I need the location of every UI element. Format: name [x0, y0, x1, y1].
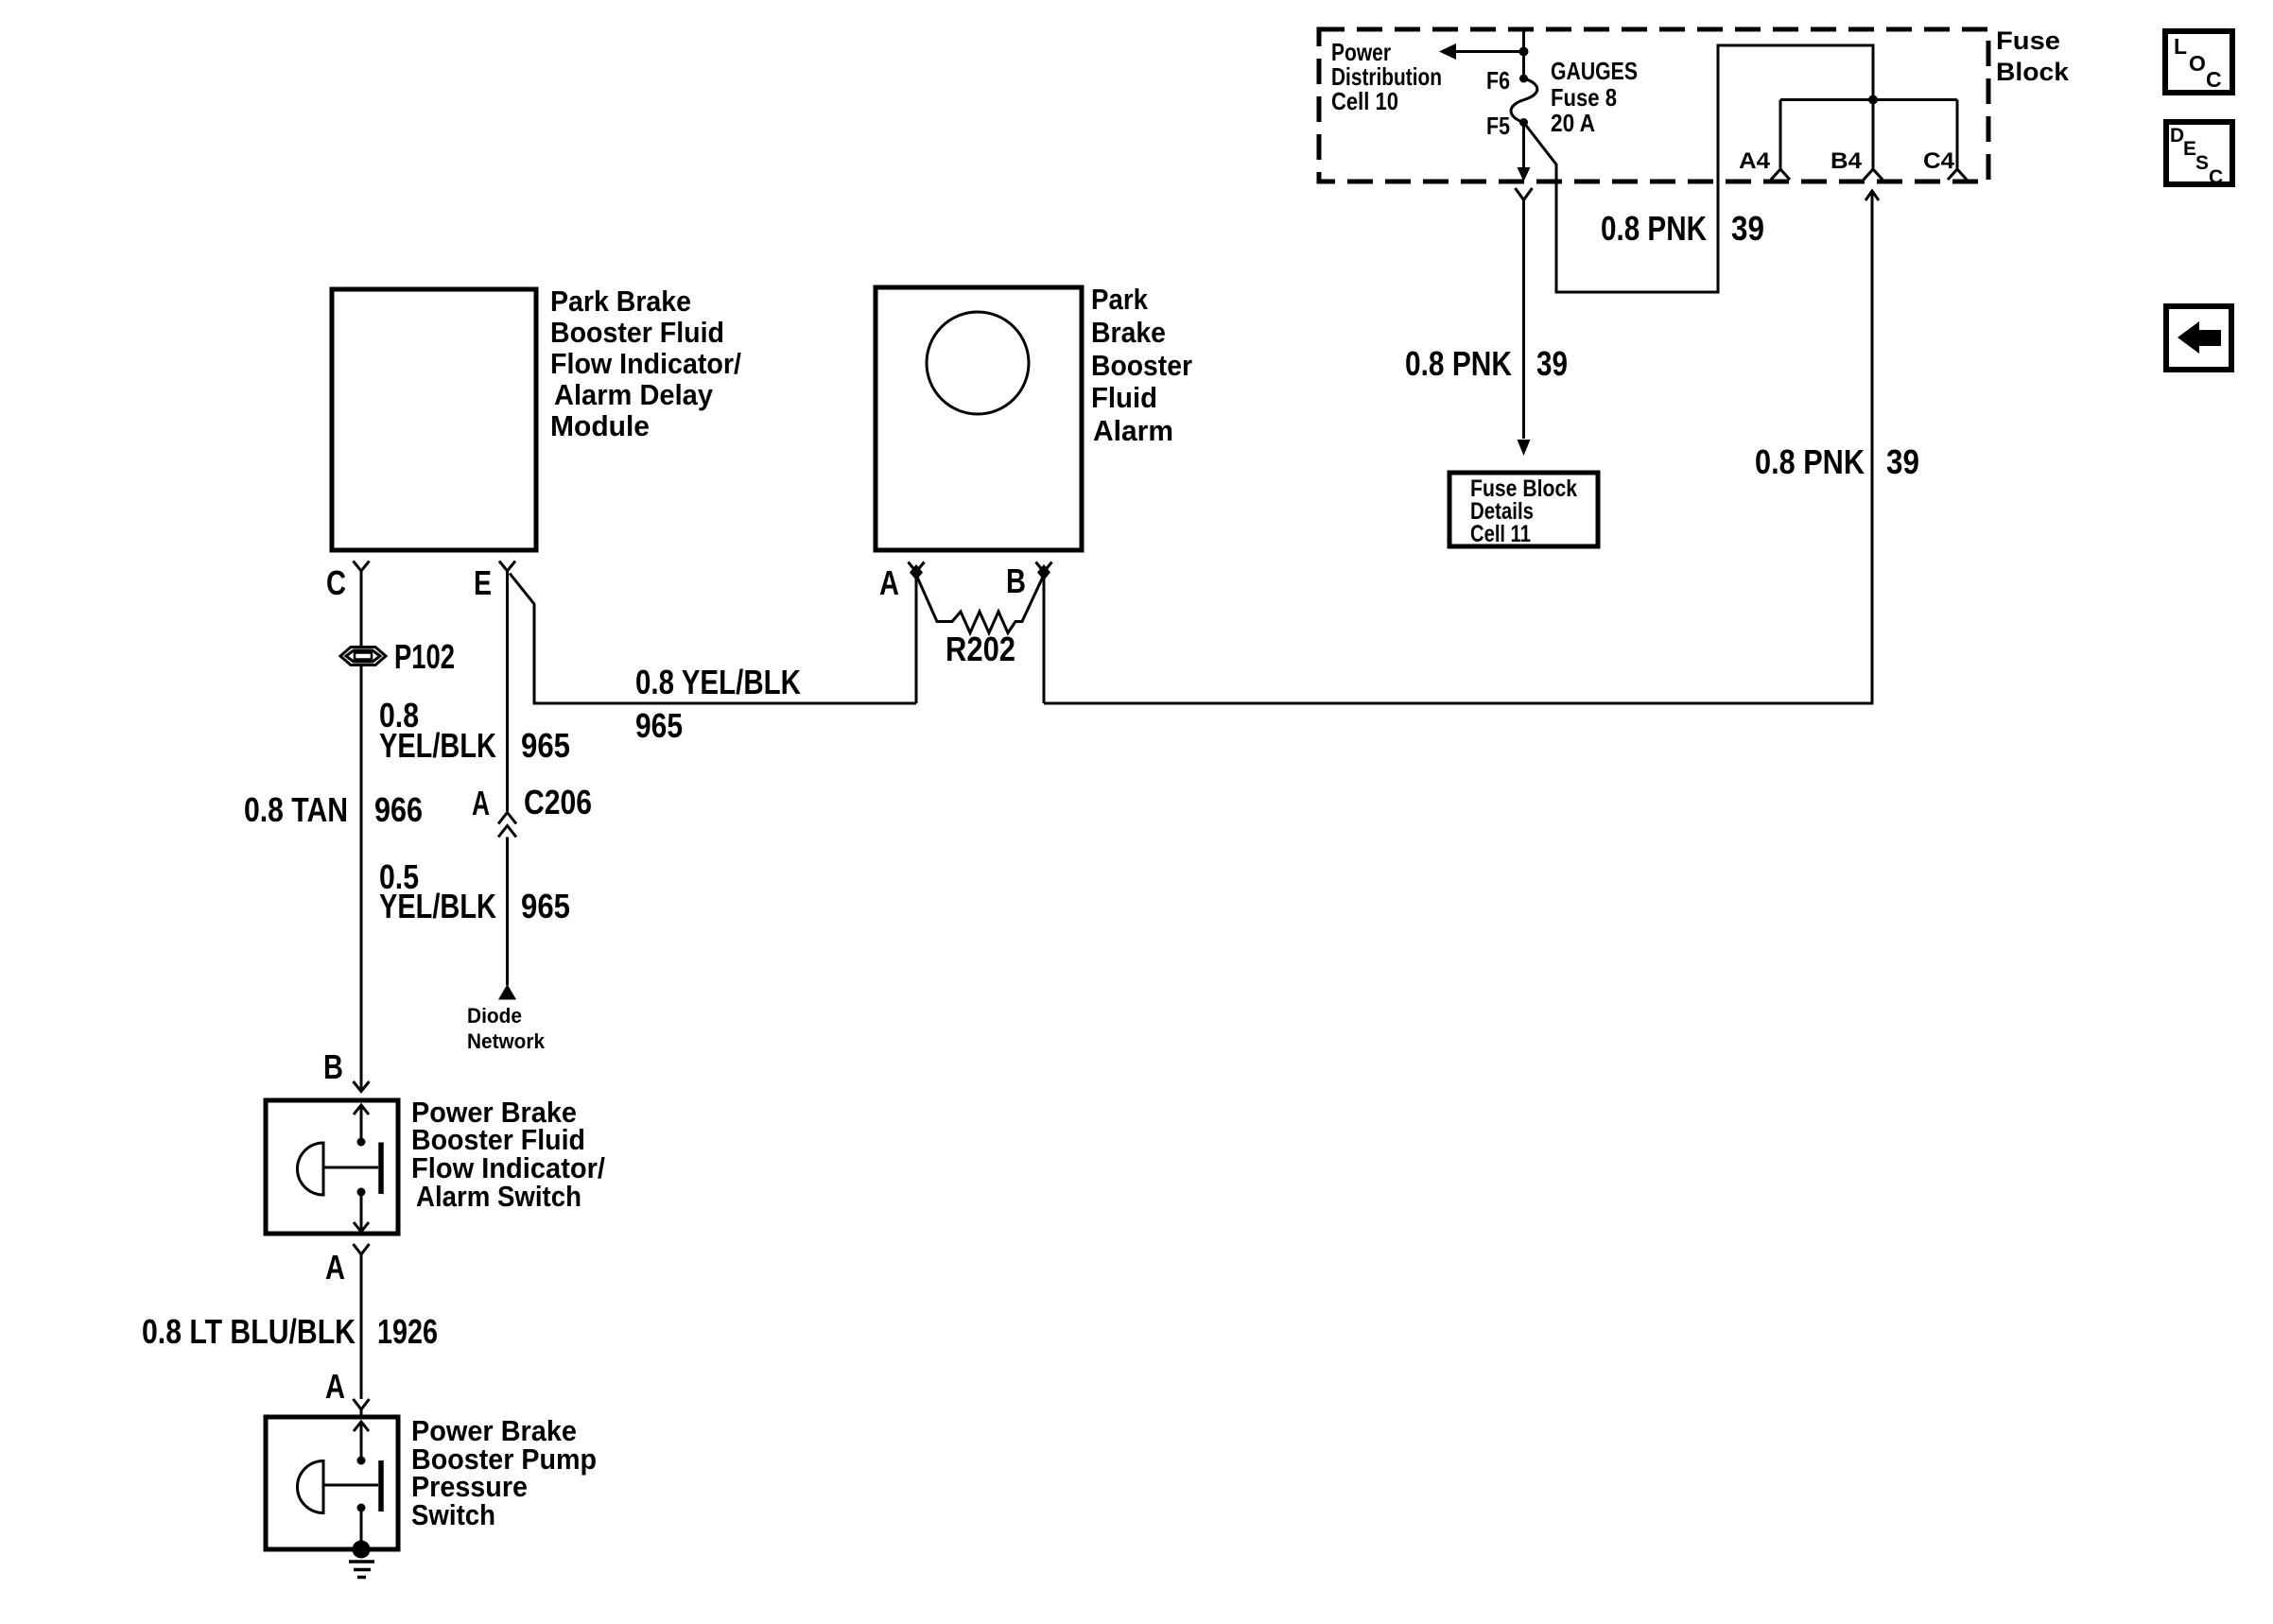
svg-text:S: S: [2195, 152, 2209, 174]
svg-text:Booster: Booster: [1091, 349, 1192, 382]
svg-text:0.8 YEL/BLK: 0.8 YEL/BLK: [635, 663, 801, 701]
pin A of alarm: [909, 562, 925, 573]
svg-text:L: L: [2174, 34, 2187, 59]
svg-text:966: 966: [374, 790, 423, 829]
svg-text:Fluid: Fluid: [1091, 381, 1157, 414]
svg-text:Fuse 8: Fuse 8: [1551, 83, 1617, 112]
wire up into B4 with arrow: [1865, 191, 1879, 200]
svg-text:Cell 10: Cell 10: [1331, 87, 1398, 115]
svg-text:E: E: [474, 563, 492, 602]
wire arrow to power distribution (left): [1456, 50, 1524, 53]
splice P102: [340, 648, 386, 665]
connector C206: [498, 813, 516, 824]
svg-text:A: A: [879, 563, 899, 602]
svg-text:A: A: [325, 1367, 345, 1406]
svg-text:1926: 1926: [377, 1312, 438, 1351]
label 0.8 YEL/BLK 965 (vertical wire): [379, 696, 570, 765]
pin C4: [1948, 169, 1967, 180]
svg-text:39: 39: [1886, 442, 1919, 481]
resistor R202: [916, 575, 1044, 633]
svg-text:D: D: [2170, 125, 2184, 147]
svg-text:GAUGES: GAUGES: [1551, 57, 1638, 85]
svg-text:965: 965: [521, 726, 570, 765]
svg-text:0.8 PNK: 0.8 PNK: [1601, 209, 1707, 248]
alarm lamp circle: [927, 312, 1029, 414]
wire pin A down: [915, 572, 918, 703]
fuse F1 GAUGES Fuse 8 20A: [1511, 75, 1537, 128]
svg-text:0.8 PNK: 0.8 PNK: [1405, 344, 1512, 383]
svg-text:P102: P102: [394, 637, 455, 676]
svg-text:Alarm: Alarm: [1093, 414, 1173, 447]
svg-text:Park Brake: Park Brake: [550, 285, 691, 318]
wire pin B down: [1043, 572, 1046, 703]
svg-text:Booster Fluid: Booster Fluid: [550, 316, 724, 349]
wire 0.8 LT BLU/BLK 1926: [360, 1254, 363, 1399]
svg-text:R202: R202: [946, 630, 1015, 668]
svg-text:B: B: [1006, 561, 1026, 600]
wire 0.5 YEL/BLK 965 down to diode network: [506, 838, 509, 986]
pin B of flow switch: [354, 1081, 370, 1092]
ground at S2: [349, 1541, 374, 1578]
pin E of module: [499, 561, 515, 572]
svg-text:A: A: [325, 1248, 345, 1287]
switch S2: Power Brake Booster Pump Pressure Switch: [266, 1417, 398, 1549]
svg-text:C: C: [2209, 166, 2223, 188]
alarm U2: Park Brake Booster Fluid Alarm: [876, 287, 1082, 550]
svg-text:Flow Indicator/: Flow Indicator/: [550, 347, 741, 380]
svg-text:Module: Module: [550, 409, 650, 442]
svg-text:39: 39: [1536, 344, 1568, 383]
label Fuse Block: [1996, 26, 2070, 86]
svg-text:F6: F6: [1486, 66, 1510, 95]
svg-text:Brake: Brake: [1091, 316, 1166, 349]
wire A4-C4 cross: [1780, 98, 1957, 101]
svg-text:E: E: [2183, 138, 2196, 160]
pin A4: [1771, 169, 1790, 180]
fuse block dashed boundary: [1319, 29, 1988, 181]
back arrow box: [2166, 306, 2231, 370]
svg-text:20 A: 20 A: [1551, 109, 1595, 137]
LOC box: [2165, 31, 2232, 93]
label GAUGES Fuse 8 20 A: [1551, 57, 1638, 137]
svg-text:Network: Network: [467, 1029, 546, 1053]
svg-text:F5: F5: [1486, 112, 1510, 140]
wire stub C4: [1956, 100, 1959, 170]
wire C down to P102: [360, 571, 363, 646]
wire E down to C206: [506, 571, 509, 811]
switch S1: Power Brake Booster Fluid Flow Indicator/Alarm Switch: [266, 1100, 398, 1234]
svg-text:C4: C4: [1923, 148, 1955, 174]
svg-text:A: A: [472, 784, 490, 822]
svg-text:39: 39: [1731, 209, 1764, 248]
svg-text:Diode: Diode: [467, 1004, 522, 1028]
svg-text:Switch: Switch: [411, 1498, 495, 1531]
wire from E diagonal to 965 horizontal run: [510, 574, 916, 704]
svg-text:B4: B4: [1831, 148, 1863, 174]
svg-text:O: O: [2189, 51, 2206, 76]
wire 0.8 PNK 39 down to fuse block details: [1522, 200, 1525, 440]
svg-text:A4: A4: [1739, 148, 1771, 174]
DESC box: [2166, 122, 2232, 184]
svg-text:Fuse: Fuse: [1996, 26, 2060, 55]
wire from F5 to B4 (zigzag inside fuse block): [1524, 45, 1874, 292]
svg-text:0.8 LT BLU/BLK: 0.8 LT BLU/BLK: [142, 1312, 356, 1351]
svg-text:Park: Park: [1091, 283, 1149, 316]
module U1: Park Brake Booster Fluid Flow Indicator/Alarm Delay Module: [332, 289, 536, 550]
wire feed into fuse from top edge: [1522, 29, 1525, 78]
svg-text:0.8 TAN: 0.8 TAN: [244, 790, 348, 829]
svg-text:Block: Block: [1996, 58, 2070, 86]
pin B of alarm: [1036, 562, 1052, 573]
label Power Distribution Cell 10: [1331, 38, 1442, 115]
svg-text:YEL/BLK: YEL/BLK: [379, 887, 496, 925]
svg-text:Alarm Delay: Alarm Delay: [554, 378, 714, 411]
wire 0.8 TAN 966 down to switch: [360, 665, 363, 1091]
svg-text:C: C: [2206, 67, 2222, 92]
svg-text:0.8 PNK: 0.8 PNK: [1755, 442, 1865, 481]
svg-text:C206: C206: [524, 783, 592, 821]
svg-text:YEL/BLK: YEL/BLK: [379, 726, 496, 765]
svg-text:965: 965: [635, 706, 683, 745]
pin B4: [1864, 169, 1883, 180]
pin A of pressure switch: [354, 1399, 370, 1409]
fuse block details box: [1449, 473, 1598, 546]
node junction at feed: [1519, 47, 1529, 57]
wire from F5 down across boundary: [1522, 123, 1525, 169]
svg-text:B: B: [323, 1047, 343, 1086]
pin A below S1: [354, 1244, 370, 1254]
diode network terminal: [498, 984, 516, 1000]
pin C of module: [354, 561, 370, 572]
wire stub A4: [1779, 100, 1782, 170]
node junction at B4 column: [1868, 95, 1878, 105]
svg-text:Alarm Switch: Alarm Switch: [416, 1180, 581, 1213]
svg-text:Cell 11: Cell 11: [1470, 521, 1531, 547]
connector chevron out of fuse block: [1516, 188, 1533, 200]
svg-text:C: C: [326, 563, 346, 602]
svg-text:965: 965: [521, 887, 570, 925]
